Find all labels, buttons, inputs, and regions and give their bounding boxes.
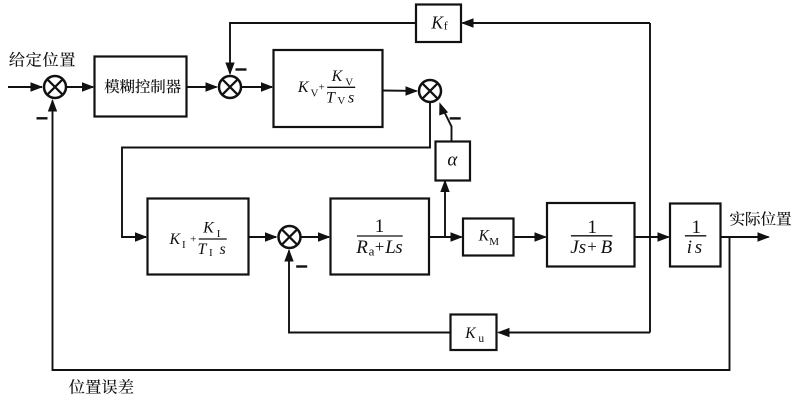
wire S2 to KV block xyxy=(242,82,274,91)
svg-text:1: 1 xyxy=(692,217,702,238)
svg-text:f: f xyxy=(444,18,448,32)
block KV PI controller xyxy=(274,50,383,127)
feedback tap vertical wire x=650 xyxy=(649,23,651,333)
summing junction S2 xyxy=(219,76,241,98)
block 1/is xyxy=(670,204,721,267)
label 位置误差 (position error) xyxy=(69,379,133,394)
svg-text:V: V xyxy=(311,88,319,100)
wire S3 down-left to KI block xyxy=(122,103,430,242)
block Kf xyxy=(416,5,461,43)
svg-text:V: V xyxy=(345,76,353,88)
wire KM to Js+B block xyxy=(514,232,548,241)
wire alpha to S3 (diagonal) xyxy=(435,101,452,143)
svg-text:K: K xyxy=(202,220,215,237)
wire tap to Kf xyxy=(461,18,650,27)
svg-text:K: K xyxy=(478,228,490,245)
tap wire up to alpha block xyxy=(440,180,449,238)
svg-text:s: s xyxy=(220,241,226,258)
svg-text:+: + xyxy=(375,237,385,256)
minus sign at S2 xyxy=(236,68,247,70)
block alpha xyxy=(436,142,471,181)
wire Kf to S2 xyxy=(225,23,416,75)
label KI + KI/TIs xyxy=(168,220,226,259)
label Kf xyxy=(430,13,447,33)
label 1/(Ra+Ls) xyxy=(355,216,402,258)
output arrow (actual position) xyxy=(721,232,771,241)
svg-text:+: + xyxy=(587,237,597,256)
svg-text:s: s xyxy=(579,237,586,258)
svg-text:I: I xyxy=(182,239,186,251)
svg-text:B: B xyxy=(601,237,613,258)
svg-text:R: R xyxy=(355,237,368,258)
label KV + KV/TVs xyxy=(297,68,355,107)
wire Ra+Ls to KM xyxy=(429,232,463,241)
svg-text:u: u xyxy=(478,333,484,345)
wire Js+B to 1/is block (crosses tap) xyxy=(635,232,671,241)
svg-text:s: s xyxy=(395,237,402,258)
svg-text:L: L xyxy=(384,237,396,258)
label Ku xyxy=(464,325,484,345)
label 给定位置 (given position) xyxy=(9,52,75,67)
svg-text:K: K xyxy=(168,231,181,248)
svg-text:V: V xyxy=(337,95,345,107)
svg-text:I: I xyxy=(217,228,221,240)
svg-text:i: i xyxy=(687,237,692,258)
svg-text:+: + xyxy=(319,82,325,94)
label 1/is xyxy=(685,217,706,258)
svg-text:a: a xyxy=(369,243,375,258)
block 1/(Js+B) xyxy=(547,203,635,267)
svg-text:1: 1 xyxy=(375,216,385,237)
svg-text:K: K xyxy=(464,325,476,342)
svg-text:K: K xyxy=(430,13,444,33)
block 1/(Ra+Ls) xyxy=(331,199,430,275)
wire KI to S4 xyxy=(249,232,278,241)
input arrow (given position) xyxy=(8,82,43,91)
summing junction S4 xyxy=(279,226,301,248)
wire S4 to Ra+Ls block xyxy=(302,232,331,241)
minus sign at S4 xyxy=(296,265,307,267)
svg-text:+: + xyxy=(190,233,196,245)
svg-text:K: K xyxy=(297,79,310,96)
block fuzzy controller 模糊控制器 xyxy=(95,57,187,117)
wire S1 to fuzzy controller xyxy=(67,82,95,91)
wire KV block to S3 xyxy=(383,86,419,95)
summing junction S1 xyxy=(44,76,66,98)
label KM xyxy=(478,228,500,249)
svg-text:T: T xyxy=(198,241,208,258)
svg-text:M: M xyxy=(489,236,499,248)
svg-text:T: T xyxy=(326,89,336,106)
block KM xyxy=(463,219,514,256)
block Ku xyxy=(451,315,497,351)
svg-text:1: 1 xyxy=(588,217,598,238)
wire fuzzy controller to S2 xyxy=(187,82,219,91)
block KI PI controller xyxy=(148,199,249,275)
summing junction S3 xyxy=(419,80,441,102)
minus sign at S3 (alpha input) xyxy=(450,117,461,119)
svg-text:α: α xyxy=(447,149,458,170)
label 实际位置 (actual position) xyxy=(730,211,791,226)
svg-text:s: s xyxy=(348,89,354,106)
wire tap to Ku xyxy=(497,328,650,337)
minus sign at S1 xyxy=(37,117,48,119)
label 模糊控制器 xyxy=(105,79,181,93)
svg-text:s: s xyxy=(695,237,702,258)
svg-text:K: K xyxy=(331,68,344,85)
wire Ku to S4 xyxy=(284,249,450,333)
outer feedback wire output to S1 xyxy=(48,99,730,370)
svg-text:I: I xyxy=(209,247,213,259)
label 1/(Js+B) xyxy=(570,217,612,258)
